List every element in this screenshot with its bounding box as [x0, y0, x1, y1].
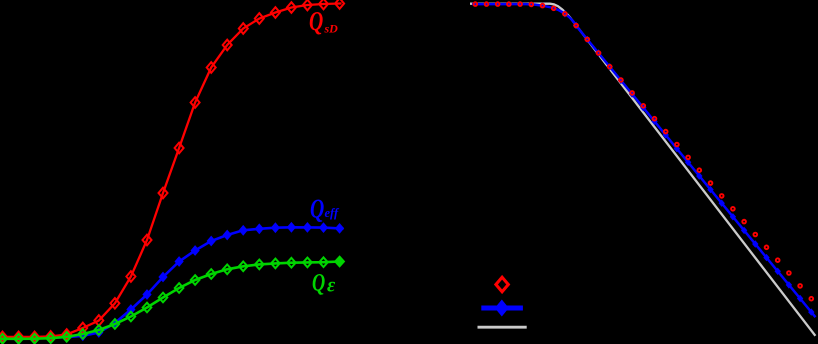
- label Q_epsilon (green): [312, 269, 336, 297]
- label Q_eff (blue): [310, 195, 340, 225]
- svg-text:ε: ε: [327, 275, 336, 297]
- blue curve line (right plot): [472, 4, 816, 317]
- legend entry: red open diamond: [496, 277, 508, 291]
- svg-text:Q: Q: [312, 269, 325, 296]
- svg-text:eff: eff: [325, 206, 340, 220]
- red curve Q_sD line (left plot): [0, 3, 342, 337]
- green filled end marker: [335, 257, 344, 267]
- red curve Q_sD open diamond markers: [0, 0, 344, 342]
- blue curve Q_eff line (left plot): [0, 227, 344, 338]
- green curve Q_epsilon line (left plot): [0, 261, 344, 338]
- red dotted-marker curve (right plot, open circles): [473, 2, 813, 300]
- svg-text:Q: Q: [310, 195, 324, 225]
- blue curve Q_eff filled diamond markers: [0, 222, 344, 343]
- gray asymptote line (right plot): [470, 4, 815, 336]
- blue small filled diamond markers (right plot): [562, 10, 815, 316]
- legend entry: blue line with filled diamond: [481, 300, 523, 317]
- label Q_sD (red): [309, 7, 338, 37]
- svg-text:sD: sD: [324, 22, 339, 36]
- green curve Q_epsilon open diamond markers: [0, 257, 344, 344]
- legend entry: gray line: [478, 326, 527, 329]
- svg-text:Q: Q: [309, 7, 323, 37]
